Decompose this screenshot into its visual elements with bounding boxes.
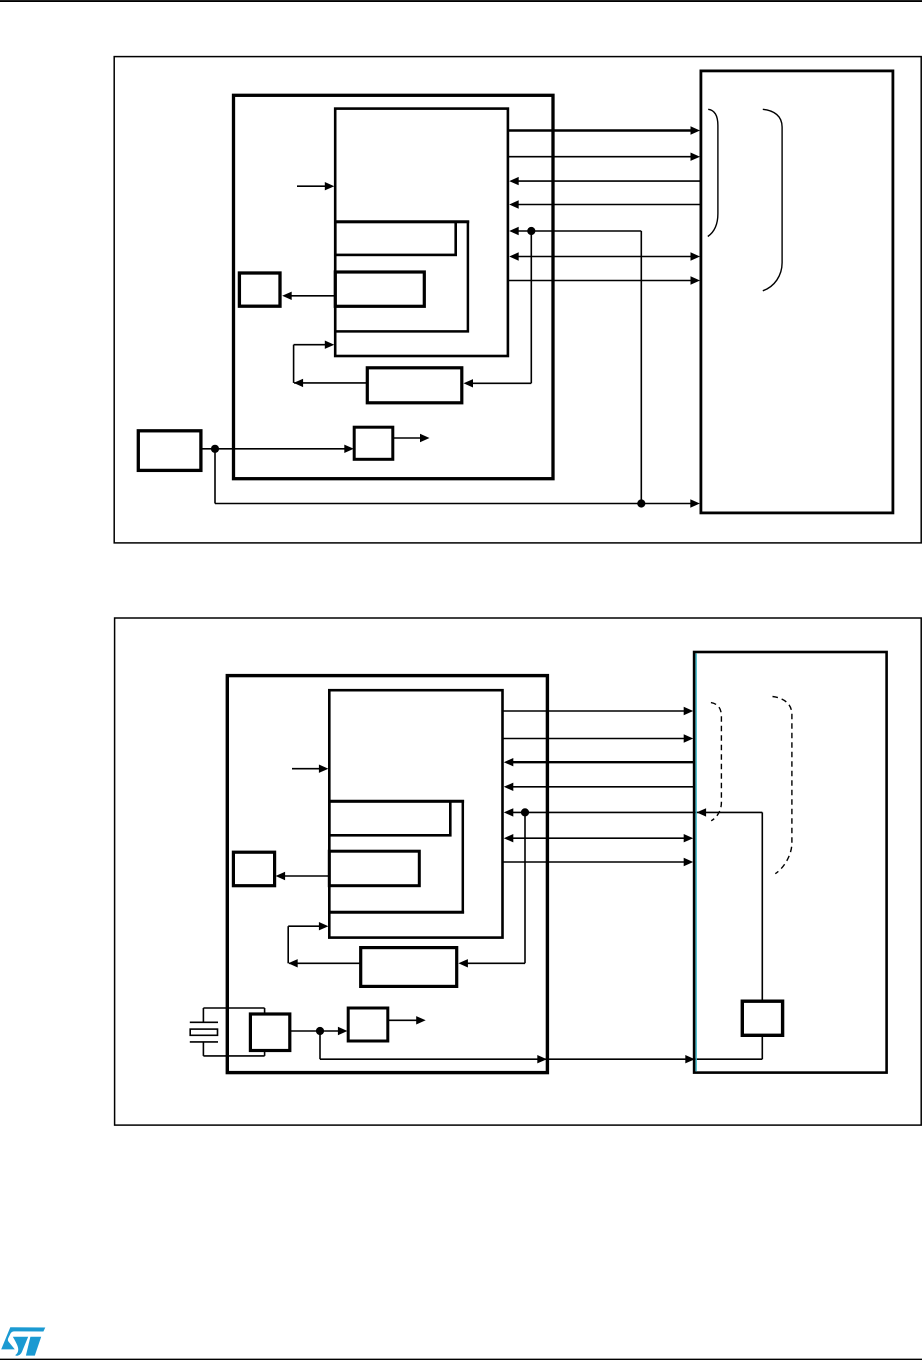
wire: bus line 2, port to module (fig1)	[508, 153, 700, 161]
wire: crystal top to oscillator	[203, 1008, 264, 1014]
logo: ST Microelectronics	[1, 1327, 45, 1355]
wire: junction down to mux with arrowhead (fig1)	[464, 231, 532, 388]
crystal X1: bottom lead	[190, 1042, 218, 1056]
wire: RTC box down to clock line (fig2)	[761, 1035, 763, 1059]
crystal X1: body	[190, 1029, 217, 1035]
register B (fig1)	[335, 272, 424, 306]
block: latch (fig1)	[239, 273, 280, 306]
block: oscillator (fig2)	[250, 1014, 289, 1051]
block: output mux (fig1)	[367, 368, 462, 403]
header rule	[0, 0, 922, 2]
junction dot on oscillator line (fig1)	[211, 445, 219, 453]
block: divider (fig2)	[348, 1008, 388, 1041]
wire: divider output arrow (fig1)	[393, 434, 430, 442]
block: I/O port (fig1)	[335, 109, 508, 356]
wire: junction down to mux with arrowhead (fig2)	[458, 812, 525, 967]
wire: clock line to module with arrowheads (fig2)	[320, 1031, 762, 1063]
register bank outline (fig2)	[329, 801, 463, 912]
wire: divider output arrow (fig2)	[388, 1016, 426, 1024]
wire: oscillator to divider with arrowhead (fig1)	[202, 445, 353, 453]
wire: bus line 1, port to module (fig2)	[503, 707, 694, 715]
wire: bus line 7, port to module (fig2)	[503, 858, 694, 866]
register bank outline (fig1)	[335, 222, 468, 332]
block: oscillator (fig1)	[138, 431, 201, 471]
wire: port to latch with arrowhead (fig2)	[276, 872, 330, 880]
block: external module (fig1 right)	[701, 71, 893, 513]
bracket small dashed (fig2)	[711, 703, 722, 821]
block: MCU U1 (fig1)	[234, 95, 554, 478]
wire: bus line 3 thick, module to port (fig2)	[504, 758, 694, 766]
junction dot on line 5 (fig2)	[521, 808, 529, 816]
wire: clock line to module (fig1)	[215, 449, 700, 508]
wire: bus line 5, module out to port (fig2)	[504, 808, 763, 816]
bracket small (fig1)	[708, 109, 718, 236]
junction dot on clock line (fig1)	[637, 499, 645, 507]
wire: bus line 7, port to module (fig1)	[508, 276, 700, 284]
register B (fig2)	[329, 851, 419, 886]
register A (fig1)	[335, 222, 455, 255]
wire: oscillator to divider with arrowhead (fig2)	[290, 1027, 348, 1035]
crystal X1: top lead	[190, 1008, 218, 1022]
block: I/O port (fig2)	[329, 690, 502, 937]
wire: data input arrow into port (fig2)	[292, 765, 328, 773]
wire: data input arrow into port (fig1)	[297, 182, 334, 190]
block: external module (fig2 right)	[694, 652, 887, 1073]
wire: bus line 3, module to port (fig1)	[509, 177, 701, 185]
block: latch (fig2)	[233, 852, 274, 886]
bracket large dashed (fig2)	[773, 697, 792, 874]
wire: bus line 2, port to module (fig2)	[503, 734, 694, 742]
junction dot on line 5 (fig1)	[527, 227, 535, 235]
frame: figure 1 border	[114, 57, 921, 543]
bracket large (fig1)	[763, 109, 782, 290]
wire: bus line 1 thick, port to module (fig1)	[508, 126, 700, 134]
wire: bus line 4, module to port (fig1)	[509, 200, 701, 208]
wire: mux feedback loop into port (fig2)	[288, 922, 359, 968]
wire: line 5 corner down to clock line (fig1)	[640, 231, 642, 504]
block: output mux (fig2)	[361, 948, 457, 987]
wire: bus line 6 double arrow (fig1)	[509, 252, 700, 260]
frame: figure 2 border	[115, 618, 922, 1125]
register A (fig2)	[329, 801, 450, 835]
wire: module internal vertical from line 5 to RTC box (fig2)	[761, 812, 763, 1001]
wire: mux feedback loop into port (fig1)	[294, 341, 366, 388]
wire: bus line 5 to port (fig1)	[509, 227, 641, 235]
block: divider (fig1)	[354, 427, 393, 459]
junction dot on oscillator line (fig2)	[316, 1027, 324, 1035]
wire: bus line 6 double arrow (fig2)	[504, 834, 693, 842]
wire: crystal bottom to oscillator	[203, 1051, 264, 1056]
wire: port to latch with arrowhead	[282, 292, 335, 300]
footer rule	[0, 1358, 922, 1360]
wire: bus line 4, module to port (fig2)	[504, 783, 694, 791]
net highlight: cyan line inside module left edge (fig2)	[695, 653, 697, 1071]
block: MCU U2 (fig2)	[227, 676, 547, 1073]
block: RTC box inside module (fig2)	[742, 1001, 782, 1035]
